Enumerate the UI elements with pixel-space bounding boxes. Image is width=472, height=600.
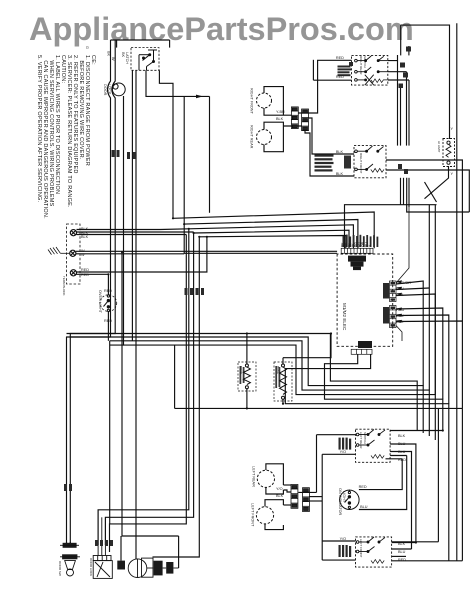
wire segment w5 bbox=[392, 560, 463, 562]
svg-text:BLK: BLK bbox=[398, 434, 406, 438]
right front burner loop top bbox=[264, 87, 283, 116]
wire segment w40 bbox=[392, 541, 439, 543]
svg-text:BLU: BLU bbox=[398, 442, 406, 446]
wire segment w41 bbox=[437, 408, 439, 541]
terminal block dashed box bbox=[67, 224, 81, 284]
wire segment w14 bbox=[403, 178, 405, 205]
svg-text:RIGHT REAR: RIGHT REAR bbox=[250, 125, 254, 149]
wire segment w38 bbox=[386, 458, 403, 460]
svg-text:Y/O: Y/O bbox=[340, 450, 347, 454]
control header row bbox=[341, 248, 373, 253]
svg-text:LEFT FRONT: LEFT FRONT bbox=[251, 503, 255, 527]
svg-text:RED/OR: RED/OR bbox=[396, 281, 411, 285]
terminal N bbox=[70, 250, 76, 256]
wire segment w42 bbox=[392, 555, 406, 557]
wire segment w22 bbox=[396, 314, 402, 317]
box3 left label columns bbox=[339, 438, 352, 450]
indicator light top wire bbox=[359, 459, 402, 490]
relay output fan 2 bbox=[396, 308, 443, 399]
hi-limit thermostat bbox=[443, 139, 455, 167]
svg-text:SWITCH: SWITCH bbox=[363, 432, 367, 444]
wire segment w51 bbox=[357, 71, 365, 73]
nest line L3 bbox=[110, 341, 430, 436]
wire segment w60 bbox=[359, 551, 368, 553]
wire segment w2 bbox=[77, 234, 187, 236]
wire segment w19 bbox=[396, 287, 402, 290]
svg-text:RED: RED bbox=[104, 289, 112, 293]
wire segment w31 bbox=[283, 504, 291, 506]
wire segment w36 bbox=[390, 444, 416, 543]
nest line L7 bbox=[175, 407, 463, 409]
wire to box4 lower bbox=[322, 559, 355, 561]
wire segment w15 bbox=[407, 178, 470, 212]
relay fan arrowheads bbox=[396, 280, 402, 323]
wire segment w47 bbox=[243, 367, 250, 385]
wire segment w62 bbox=[97, 510, 99, 556]
svg-text:LIGHT: LIGHT bbox=[342, 491, 346, 503]
wire segment w33 bbox=[309, 500, 322, 502]
wire segment w7 bbox=[400, 85, 402, 146]
wire segment w11 bbox=[388, 79, 409, 81]
4 pin connector under control bbox=[351, 341, 372, 354]
wire segment w58 bbox=[359, 444, 368, 446]
left front burner loop bbox=[265, 500, 283, 507]
mid-right vertical bottom section bbox=[321, 454, 323, 560]
latch switch contacts bbox=[139, 50, 157, 70]
svg-text:Y/O: Y/O bbox=[340, 537, 347, 541]
wire segment w67 bbox=[173, 567, 178, 569]
tiny wire label ticks bbox=[64, 150, 408, 546]
wire connector to box1 lower bbox=[313, 79, 351, 81]
wire segment w59 bbox=[359, 541, 368, 543]
bake element bbox=[274, 362, 292, 401]
wire segment w35 bbox=[390, 455, 407, 457]
svg-text:LEFT FRONT: LEFT FRONT bbox=[359, 539, 363, 558]
wire segment w66 bbox=[163, 567, 167, 569]
svg-text:DOOR: DOOR bbox=[103, 84, 107, 96]
wire connector to box2 top bbox=[309, 118, 355, 154]
svg-text:BLK: BLK bbox=[81, 235, 89, 239]
svg-text:RED: RED bbox=[336, 56, 344, 60]
nest line L4 bbox=[124, 345, 436, 440]
right edge vertical 3 bbox=[461, 408, 463, 560]
svg-text:BLK: BLK bbox=[396, 320, 404, 324]
box3 outputs right bbox=[390, 430, 443, 432]
wire segment w56 bbox=[446, 144, 451, 157]
infinite switch box 1 (right rear) bbox=[338, 47, 412, 89]
wire segment w52 bbox=[378, 71, 388, 73]
svg-text:BLU: BLU bbox=[398, 550, 406, 554]
wire v184 control feed bbox=[184, 96, 337, 253]
svg-text:BLK: BLK bbox=[276, 117, 284, 121]
svg-text:G: G bbox=[85, 46, 89, 49]
svg-text:TERM BLOCK: TERM BLOCK bbox=[62, 276, 66, 296]
wire segment w26 bbox=[396, 315, 449, 404]
wire segment w21 bbox=[396, 308, 402, 311]
svg-text:OVEN LIGHT: OVEN LIGHT bbox=[98, 290, 102, 314]
wire segment w3 bbox=[76, 253, 184, 255]
box1 right wire label blobs bbox=[399, 47, 412, 89]
capacitor hatched bbox=[117, 561, 173, 576]
wire segment w25 bbox=[396, 294, 435, 395]
wire segment w43 bbox=[69, 542, 71, 545]
wire header right stub bbox=[169, 40, 171, 48]
infinite switch box 4 (left front) bbox=[339, 537, 392, 567]
wire segment w45 bbox=[396, 207, 409, 283]
bus line C to control header bbox=[189, 225, 354, 249]
svg-text:BK: BK bbox=[121, 52, 125, 58]
oven light dashed circle bbox=[100, 295, 117, 312]
top right corner wire bbox=[401, 25, 450, 139]
wire segment w6 bbox=[434, 205, 436, 395]
wire mid vertical D bbox=[153, 237, 200, 557]
control header blob bbox=[348, 256, 366, 271]
wire v122 down to door cluster bbox=[122, 252, 179, 536]
bus line B to control header bbox=[184, 220, 358, 249]
svg-text:BK: BK bbox=[107, 51, 111, 57]
control header pin hatch strips bbox=[343, 235, 379, 247]
box4 left label columns bbox=[339, 545, 352, 557]
bake element leads bbox=[282, 358, 284, 364]
right rear burner loop top bbox=[264, 122, 283, 152]
wire segment w37 bbox=[390, 452, 411, 550]
wire segment w16 bbox=[408, 178, 410, 207]
wire connector to box1 top bbox=[298, 60, 351, 113]
svg-text:BLK: BLK bbox=[398, 542, 406, 546]
wire to box3 bbox=[322, 453, 355, 455]
wire arrow marker bbox=[196, 95, 203, 99]
wire segment w50 bbox=[378, 60, 388, 62]
svg-text:BLK: BLK bbox=[276, 494, 284, 498]
wire v110 down to door cluster bbox=[109, 341, 111, 524]
svg-text:BLU: BLU bbox=[396, 287, 404, 291]
element label strips bbox=[240, 366, 281, 388]
svg-text:BLU: BLU bbox=[360, 505, 368, 509]
box1 output to top corner bbox=[388, 55, 398, 61]
door latch switch dashed box bbox=[131, 48, 159, 71]
svg-text:BLK: BLK bbox=[336, 150, 344, 154]
right edge vertical 2 bbox=[456, 23, 458, 561]
wire segment w54 bbox=[357, 150, 366, 152]
control board dashed box bbox=[337, 207, 409, 354]
wire segment w48 bbox=[280, 367, 287, 394]
wire latch aux vertical bbox=[209, 96, 211, 212]
wire segment w64 bbox=[104, 517, 106, 555]
svg-text:LEFT REAR: LEFT REAR bbox=[359, 432, 363, 449]
indicator light circle bbox=[340, 490, 359, 510]
svg-text:BROIL: BROIL bbox=[239, 366, 243, 375]
notice caution text block bbox=[36, 55, 96, 231]
svg-text:Y/O: Y/O bbox=[276, 487, 283, 491]
wire terminal L1 leads bbox=[77, 228, 189, 231]
svg-text:HI LIMIT: HI LIMIT bbox=[437, 141, 441, 153]
right front burner loop bottom bbox=[264, 108, 291, 115]
wire box1 input link vertical bbox=[312, 60, 314, 80]
terminal L2 bbox=[70, 270, 76, 276]
wire segment w10 bbox=[388, 71, 407, 73]
svg-text:RED: RED bbox=[398, 558, 406, 562]
bus line E to control header bbox=[199, 236, 345, 249]
wire segment w27 bbox=[396, 321, 462, 408]
squiggle inside box2 bbox=[371, 168, 384, 172]
svg-text:RED: RED bbox=[336, 75, 344, 79]
wire segment w44 bbox=[337, 254, 393, 346]
svg-text:BLU: BLU bbox=[398, 450, 406, 454]
wire nest L7 left vertical bbox=[174, 345, 176, 408]
oven light bottom lead bbox=[107, 311, 109, 340]
rotated component labels bbox=[58, 52, 441, 576]
wire mid vertical A bbox=[110, 235, 187, 553]
relay output fan 1 bbox=[396, 281, 423, 386]
wire segment w8 bbox=[406, 72, 408, 146]
bus line D to control header bbox=[194, 230, 349, 248]
door cluster bottom left wires bbox=[66, 542, 68, 545]
wire probe chain bbox=[147, 567, 179, 569]
svg-text:RIGHT REAR: RIGHT REAR bbox=[359, 56, 363, 75]
svg-text:RIGHT FRONT: RIGHT FRONT bbox=[250, 88, 254, 115]
relay connector ladder 1 bbox=[383, 281, 396, 302]
wire terminal L2 leads bbox=[77, 237, 207, 272]
left rear bottom bbox=[266, 488, 284, 495]
wire segment w23 bbox=[396, 320, 402, 323]
wire terminal N leads bbox=[76, 250, 337, 252]
wire segment w13 bbox=[408, 46, 410, 55]
wire connector to box2 bottom bbox=[305, 131, 354, 176]
left front burner circle bbox=[256, 507, 273, 524]
svg-text:DOOR LOCK: DOOR LOCK bbox=[89, 558, 93, 576]
wire segment w9 bbox=[408, 80, 410, 146]
wire latch right loop bbox=[159, 70, 173, 218]
wire segment w55 bbox=[357, 168, 366, 170]
wire box3 top input bbox=[316, 435, 318, 493]
squiggle inside box3 bbox=[371, 455, 384, 459]
wire second left vertical bbox=[70, 40, 115, 545]
box1 left label text block bbox=[338, 62, 354, 76]
box2 outputs down bbox=[400, 178, 402, 205]
door lock motor circle bbox=[112, 83, 125, 96]
wire segment w18 bbox=[396, 280, 402, 283]
probe receptacle bbox=[128, 558, 153, 577]
bake top wire bbox=[283, 334, 331, 358]
svg-text:RED: RED bbox=[81, 268, 89, 272]
door lock motor assembly bbox=[93, 510, 112, 579]
wire segment w49 bbox=[357, 60, 365, 62]
svg-text:RED: RED bbox=[398, 458, 406, 462]
svg-text:ON INDICATOR: ON INDICATOR bbox=[338, 488, 342, 516]
wire segment w12 bbox=[400, 25, 402, 55]
wire segment w24 bbox=[396, 288, 429, 290]
wire segment w39 bbox=[392, 548, 412, 550]
svg-text:W: W bbox=[81, 253, 85, 257]
svg-text:BAKE: BAKE bbox=[276, 366, 280, 374]
wires left burners to connectors bbox=[283, 484, 291, 486]
wire from X-crossing to header pin1 bbox=[345, 205, 437, 249]
wire rr to ladder2 bbox=[283, 125, 301, 127]
wire to box4 bbox=[322, 540, 355, 542]
wire segment w30 bbox=[283, 490, 291, 492]
wire segment w53 bbox=[357, 79, 365, 81]
control header pin labels bbox=[341, 241, 372, 247]
wire cap component lead bbox=[120, 536, 122, 561]
ground symbol bbox=[48, 247, 69, 255]
svg-text:M1/M2 ELEC: M1/M2 ELEC bbox=[342, 303, 347, 331]
connector ladder LR/LF bbox=[291, 485, 309, 512]
svg-text:RIGHT FRONT: RIGHT FRONT bbox=[359, 153, 363, 174]
door switch assembly bottom-left bbox=[60, 543, 80, 576]
wire segment w29 bbox=[282, 399, 284, 404]
left front bottom bbox=[265, 524, 283, 530]
nest line L1 bbox=[67, 334, 418, 431]
left rear burner loop bbox=[266, 464, 284, 485]
wire segment w1 bbox=[77, 231, 194, 233]
wire segment w57 bbox=[359, 434, 368, 436]
svg-text:LEFT REAR: LEFT REAR bbox=[252, 466, 256, 487]
x crossing second diagonal bbox=[425, 182, 437, 202]
wire mid vertical B bbox=[98, 229, 189, 545]
wire probe feed bbox=[178, 536, 180, 568]
bus line A to control header bbox=[173, 212, 374, 248]
wire segment w63 bbox=[101, 517, 103, 555]
wire header left stub bbox=[116, 40, 118, 48]
relay connector ladder 2 bbox=[383, 306, 396, 328]
left rear burner circle bbox=[257, 470, 274, 487]
wire segment w32 bbox=[309, 496, 322, 498]
tiny wire labels bbox=[81, 46, 454, 562]
broil element leads bbox=[246, 334, 248, 365]
indicator light bottom wire bbox=[359, 456, 407, 510]
wire segment w4 bbox=[77, 274, 109, 295]
wire mid vertical from latch box bbox=[131, 70, 133, 341]
svg-text:DOOR SW: DOOR SW bbox=[58, 561, 62, 576]
wire door lock circle bottom lead bbox=[110, 96, 124, 345]
wire segment w17 bbox=[386, 170, 469, 212]
svg-text:Y-BR: Y-BR bbox=[276, 110, 285, 114]
svg-text:LATCH: LATCH bbox=[125, 52, 129, 64]
wire mid vertical C bbox=[105, 232, 193, 545]
svg-text:RED: RED bbox=[81, 273, 89, 277]
box1 to box2 wires bbox=[397, 61, 399, 146]
terminal L1 bbox=[70, 230, 76, 236]
svg-text:W: W bbox=[111, 57, 115, 61]
squiggle inside box4 bbox=[371, 560, 384, 564]
svg-text:RED: RED bbox=[359, 485, 367, 489]
svg-text:BLU: BLU bbox=[396, 314, 404, 318]
infinite switch box 2 (right front) bbox=[315, 146, 387, 178]
svg-text:AppliancePartsPros.com: AppliancePartsPros.com bbox=[29, 11, 414, 47]
svg-text:BLK: BLK bbox=[336, 172, 344, 176]
wire segment w65 bbox=[147, 567, 154, 569]
box2 outputs to right edge verticals bbox=[386, 160, 462, 321]
box4 outputs right bbox=[392, 542, 416, 544]
wire segment w28 bbox=[246, 389, 248, 408]
wire segment w20 bbox=[396, 293, 402, 296]
svg-text:SWITCH: SWITCH bbox=[363, 56, 367, 68]
svg-text:RED: RED bbox=[104, 319, 112, 323]
svg-text:BLK: BLK bbox=[396, 293, 404, 297]
nest line L5 from connector bbox=[325, 354, 443, 430]
box2 left label text block bbox=[315, 155, 352, 172]
svg-text:RED: RED bbox=[396, 308, 404, 312]
wire top header bus bbox=[111, 39, 170, 41]
right rear burner circle bbox=[257, 130, 272, 145]
wire left pair down from top bbox=[67, 40, 111, 545]
connector ladder RF/RR bbox=[291, 107, 308, 131]
relay1 input diagonal from box2 output bbox=[396, 207, 409, 341]
right front burner circle bbox=[257, 93, 272, 108]
x verticals down to relay zone bbox=[428, 205, 430, 390]
nest line L6 from connector bbox=[285, 354, 449, 561]
wire segment w34 bbox=[317, 434, 356, 436]
wire segment w61 bbox=[65, 561, 76, 570]
broil element bbox=[238, 362, 256, 391]
connector pair outputs to mid vertical bbox=[298, 491, 316, 493]
hi-limit lower lead diagonal bbox=[425, 166, 449, 199]
squiggle inside box1 bbox=[371, 79, 387, 83]
wire latch box lead down-right bbox=[146, 70, 210, 96]
svg-text:LOCK: LOCK bbox=[108, 84, 112, 95]
nest line L2 bbox=[70, 337, 423, 433]
infinite switch box 3 (left rear) bbox=[339, 429, 391, 462]
wire segment w46 bbox=[396, 326, 402, 342]
wire long vertical latch to door cluster bbox=[135, 70, 137, 559]
